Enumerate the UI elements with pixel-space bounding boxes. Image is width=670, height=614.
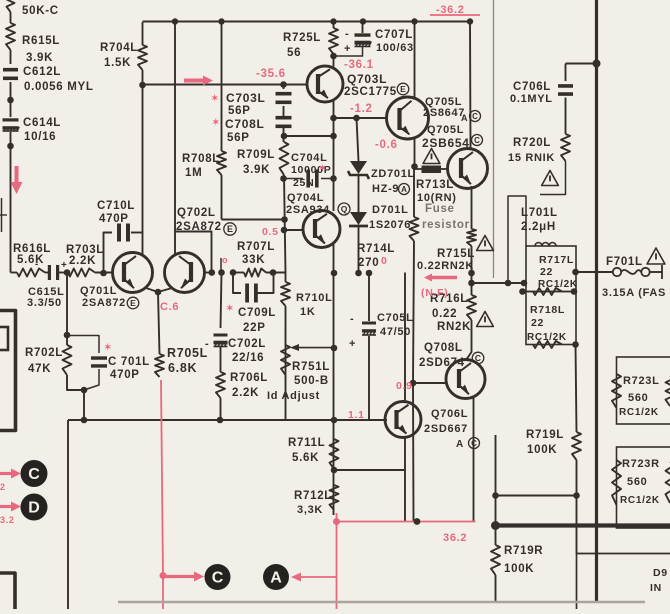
svg-text:R717L: R717L [539,254,574,266]
svg-text:3.3/50: 3.3/50 [27,297,62,309]
svg-text:✶: ✶ [211,93,219,103]
svg-text:2SA872: 2SA872 [176,221,222,233]
svg-text:-1.2: -1.2 [350,103,373,115]
svg-text:IN: IN [650,582,662,594]
svg-text:2SA872: 2SA872 [82,297,126,309]
svg-text:-36.1: -36.1 [344,59,374,71]
svg-text:1S2076: 1S2076 [369,219,411,231]
svg-text:C703L: C703L [226,91,266,105]
svg-text:C: C [212,570,224,587]
svg-text:0.22RN2K: 0.22RN2K [417,260,474,272]
svg-text:100K: 100K [527,444,557,456]
svg-text:R725L: R725L [283,32,321,44]
svg-text:C707L: C707L [375,29,413,41]
svg-text:2SA934: 2SA934 [286,204,330,216]
svg-text:C702L: C702L [228,338,266,350]
svg-text:R707L: R707L [237,241,275,253]
svg-text:Q: Q [341,204,348,214]
svg-text:Q703L: Q703L [347,72,387,86]
svg-text:Q708L: Q708L [424,342,463,354]
svg-text:Q706L: Q706L [431,408,468,420]
svg-text:Fuse: Fuse [425,203,455,215]
svg-text:C708L: C708L [225,117,265,131]
svg-text:-35.6: -35.6 [256,68,286,80]
svg-text:3.9K: 3.9K [26,52,53,64]
svg-text:-: - [345,28,349,40]
svg-text:0: 0 [381,255,388,267]
svg-text:25N: 25N [293,177,314,189]
svg-text:50K-C: 50K-C [22,5,59,17]
svg-text:C614L: C614L [23,117,61,129]
svg-text:1.5K: 1.5K [104,57,131,69]
svg-text:R705L: R705L [167,346,208,360]
svg-text:C709L: C709L [238,307,276,319]
svg-text:C706L: C706L [513,81,551,93]
svg-text:✶: ✶ [212,117,220,127]
svg-text:Q705L: Q705L [427,124,464,136]
svg-text:22P: 22P [243,322,266,334]
svg-text:D701L: D701L [372,204,409,216]
svg-text:+: + [349,338,356,350]
svg-text:2SB654: 2SB654 [422,136,470,150]
svg-text:2S8647: 2S8647 [423,107,465,119]
svg-text:R719L: R719L [526,429,564,441]
svg-text:270: 270 [358,257,379,269]
svg-text:2SC1775: 2SC1775 [344,86,397,98]
svg-text:R711L: R711L [288,437,325,449]
svg-text:L701L: L701L [521,207,558,219]
svg-text:R712L: R712L [294,490,332,502]
svg-text:resistor: resistor [422,219,470,231]
svg-text:10/16: 10/16 [24,131,56,143]
svg-text:100/63: 100/63 [376,42,414,54]
svg-text:Q704L: Q704L [287,192,324,204]
svg-text:0.1MYL: 0.1MYL [510,93,553,105]
svg-text:R715L: R715L [437,248,475,260]
svg-text:0.22: 0.22 [432,308,457,320]
svg-text:Q702L: Q702L [177,207,216,219]
svg-text:E: E [400,84,406,94]
svg-text:0.0056 MYL: 0.0056 MYL [24,81,94,93]
svg-text:2: 2 [0,482,6,492]
svg-text:R713L: R713L [416,179,454,191]
svg-text:R719R: R719R [504,545,543,557]
svg-text:o: o [222,255,228,265]
svg-text:1K: 1K [300,306,315,318]
svg-text:R709L: R709L [237,149,275,161]
svg-text:3.9K: 3.9K [243,164,270,176]
svg-text:22: 22 [531,317,544,329]
svg-text:(N.F): (N.F) [421,287,448,299]
svg-text:470P: 470P [110,369,140,381]
svg-text:47/50: 47/50 [380,326,411,338]
svg-text:33K: 33K [242,254,265,266]
svg-text:1.1: 1.1 [348,409,365,421]
svg-text:C612L: C612L [23,66,61,78]
svg-text:R723R: R723R [622,458,660,470]
svg-text:1M: 1M [185,167,202,179]
svg-text:R702L: R702L [25,347,63,359]
svg-text:R720L: R720L [513,137,551,149]
svg-text:5.6K: 5.6K [292,452,319,464]
svg-text:Id Adjust: Id Adjust [267,390,320,402]
svg-text:C710L: C710L [97,200,135,212]
svg-text:56P: 56P [227,132,250,144]
svg-text:2.2μH: 2.2μH [521,221,556,233]
svg-text:HZ-9: HZ-9 [372,183,399,195]
svg-text:470P: 470P [99,213,129,225]
svg-text:0.5: 0.5 [262,226,279,238]
svg-text:2.2K: 2.2K [69,255,96,267]
svg-text:RC1/2K: RC1/2K [527,332,567,343]
svg-text:100K: 100K [504,563,534,575]
svg-text:5.6K: 5.6K [17,254,44,266]
svg-text:+: + [344,43,351,55]
svg-text:A: A [401,185,407,194]
svg-text:3.2: 3.2 [0,515,15,525]
svg-text:C 701L: C 701L [108,356,150,368]
svg-text:56: 56 [287,47,301,59]
svg-text:F701L: F701L [606,256,643,268]
svg-text:500-B: 500-B [294,375,329,387]
svg-text:3.15A (FAS: 3.15A (FAS [602,287,666,299]
svg-text:D: D [28,500,40,517]
svg-text:RC1/2K: RC1/2K [620,495,660,506]
svg-text:R704L: R704L [100,42,138,54]
svg-text:ZD701L: ZD701L [371,168,415,180]
svg-text:0.9: 0.9 [396,380,413,392]
svg-text:560: 560 [628,392,648,404]
svg-text:2.2K: 2.2K [232,387,259,399]
svg-text:C.6: C.6 [160,301,179,313]
svg-text:C: C [471,439,477,448]
svg-text:-36.2: -36.2 [436,4,465,16]
svg-text:A: A [461,113,468,123]
svg-text:2SD674: 2SD674 [419,357,465,369]
svg-text:Q701L: Q701L [80,285,117,297]
svg-text:A: A [456,439,464,450]
svg-text:-0.6: -0.6 [375,139,398,151]
svg-text:D9: D9 [653,567,668,579]
svg-text:A: A [270,570,282,587]
svg-text:R714L: R714L [357,243,395,255]
svg-text:47K: 47K [28,363,51,375]
svg-text:C705L: C705L [377,312,414,324]
svg-text:560: 560 [627,476,647,488]
svg-text:✶: ✶ [319,163,327,173]
svg-text:RN2K: RN2K [437,321,471,333]
svg-text:R723L: R723L [623,375,660,387]
svg-text:2SD667: 2SD667 [424,423,468,435]
svg-text:3,3K: 3,3K [297,504,323,516]
svg-text:R615L: R615L [22,35,60,47]
svg-text:R710L: R710L [296,292,333,304]
svg-text:✶: ✶ [226,303,234,313]
svg-text:15 RNIK: 15 RNIK [508,152,555,164]
svg-text:R718L: R718L [530,304,565,316]
svg-text:6.8K: 6.8K [168,361,197,375]
svg-text:C: C [472,112,478,121]
svg-text:C: C [474,136,480,145]
svg-text:22/16: 22/16 [232,352,264,364]
svg-text:C: C [28,466,40,483]
svg-text:R751L: R751L [292,361,330,373]
svg-text:✶: ✶ [104,342,112,352]
svg-text:R706L: R706L [230,372,268,384]
svg-text:-: - [350,313,354,325]
svg-text:RC1/2K: RC1/2K [538,279,578,290]
svg-text:56P: 56P [228,105,251,117]
svg-text:RC1/2K: RC1/2K [619,407,659,418]
svg-text:E: E [227,224,233,234]
svg-text:C: C [475,353,481,363]
svg-text:22: 22 [540,266,553,278]
svg-text:E: E [130,298,136,308]
svg-text:36.2: 36.2 [443,532,467,544]
svg-text:R708L: R708L [182,153,220,165]
